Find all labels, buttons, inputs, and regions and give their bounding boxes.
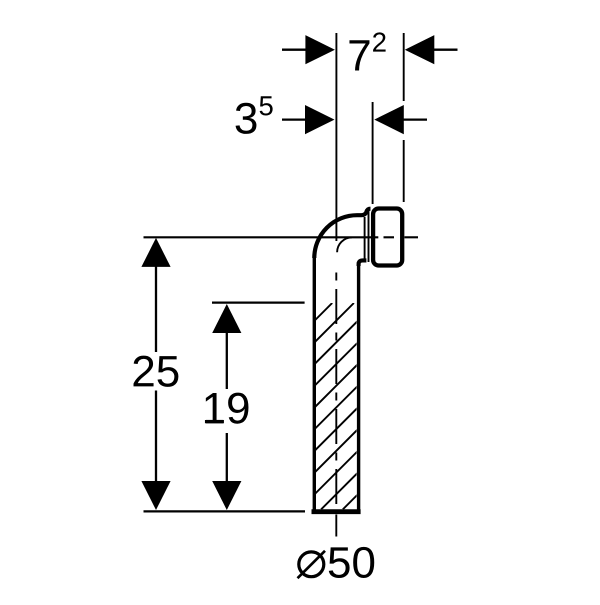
pipe bottom cap [312,509,361,514]
label 19 [205,393,249,424]
hatch line 1 [126,303,332,509]
dimension 19 bottom arrowhead [212,481,241,510]
hatch line 6 [234,303,440,509]
pipe right wall [357,262,360,510]
19-dim top reference line [212,301,305,303]
dimension 19 lower shaft [226,433,228,482]
diameter symbol circle [299,552,324,577]
bottom reference line [144,510,306,512]
dimension 25 lower shaft [155,391,157,482]
extension line A (pipe axis, top) [335,33,337,241]
label superscript 5 [260,96,273,115]
dimension 7-2 left arrowhead [305,35,335,64]
hatch line 7 [256,303,462,509]
dimension 25 top arrowhead [141,238,170,267]
extension line C (middle, socket left) [372,102,374,204]
extension line B (right, outer of socket) [403,33,405,101]
label 25 [134,356,179,387]
hatch line 2 [148,303,354,509]
dimension 25 upper shaft [155,266,157,352]
hatch line 5 [213,303,419,509]
label 19 foot serif of digit 1 [206,420,223,423]
label superscript 2 [373,32,386,51]
elbow outer contour (arc + top edge + collar step) [314,209,370,258]
horizontal axis / 25-dim top reference line [144,236,379,238]
hatch line 10 [321,303,527,509]
horizontal axis segment right of socket [405,236,419,238]
socket fitting body [373,209,402,266]
pipe left wall [313,256,316,510]
label 7 [349,40,369,70]
hatch group (section lines) [126,303,549,509]
horizontal axis dash inside socket [384,236,395,238]
hatch line 8 [278,303,484,509]
dimension 3-5 right arrowhead [374,105,404,134]
spigot collar line 2 [368,210,370,262]
label 50 [329,547,374,578]
dimension 7-2 right arrowhead [405,35,435,64]
extension line B lower segment [403,140,405,202]
dimension 7-2 right tail line [434,49,458,51]
label 3 [236,103,257,134]
hatch line 11 [343,303,549,509]
pipe centerline dash-dot [335,273,337,510]
elbow inner corner (right wall top into outlet bottom edge) [359,260,367,266]
centerline bend radius arc [337,237,352,252]
hatch line 3 [169,303,375,509]
dimension 3-5 right tail line [404,118,428,120]
spigot collar line 1 [364,217,366,261]
pipe centerline stub below pipe [335,515,337,537]
hatch line 9 [299,303,505,509]
dimension 19 upper shaft [226,332,228,389]
diameter symbol slash [298,551,326,578]
dimension 25 bottom arrowhead [141,481,170,510]
dimension 7-2 left tail line [282,49,307,51]
dimension 19 top arrowhead [212,304,241,333]
dimension 3-5 left arrowhead [305,105,335,134]
dimension 3-5 left tail line [282,118,307,120]
hatch line 4 [191,303,397,509]
